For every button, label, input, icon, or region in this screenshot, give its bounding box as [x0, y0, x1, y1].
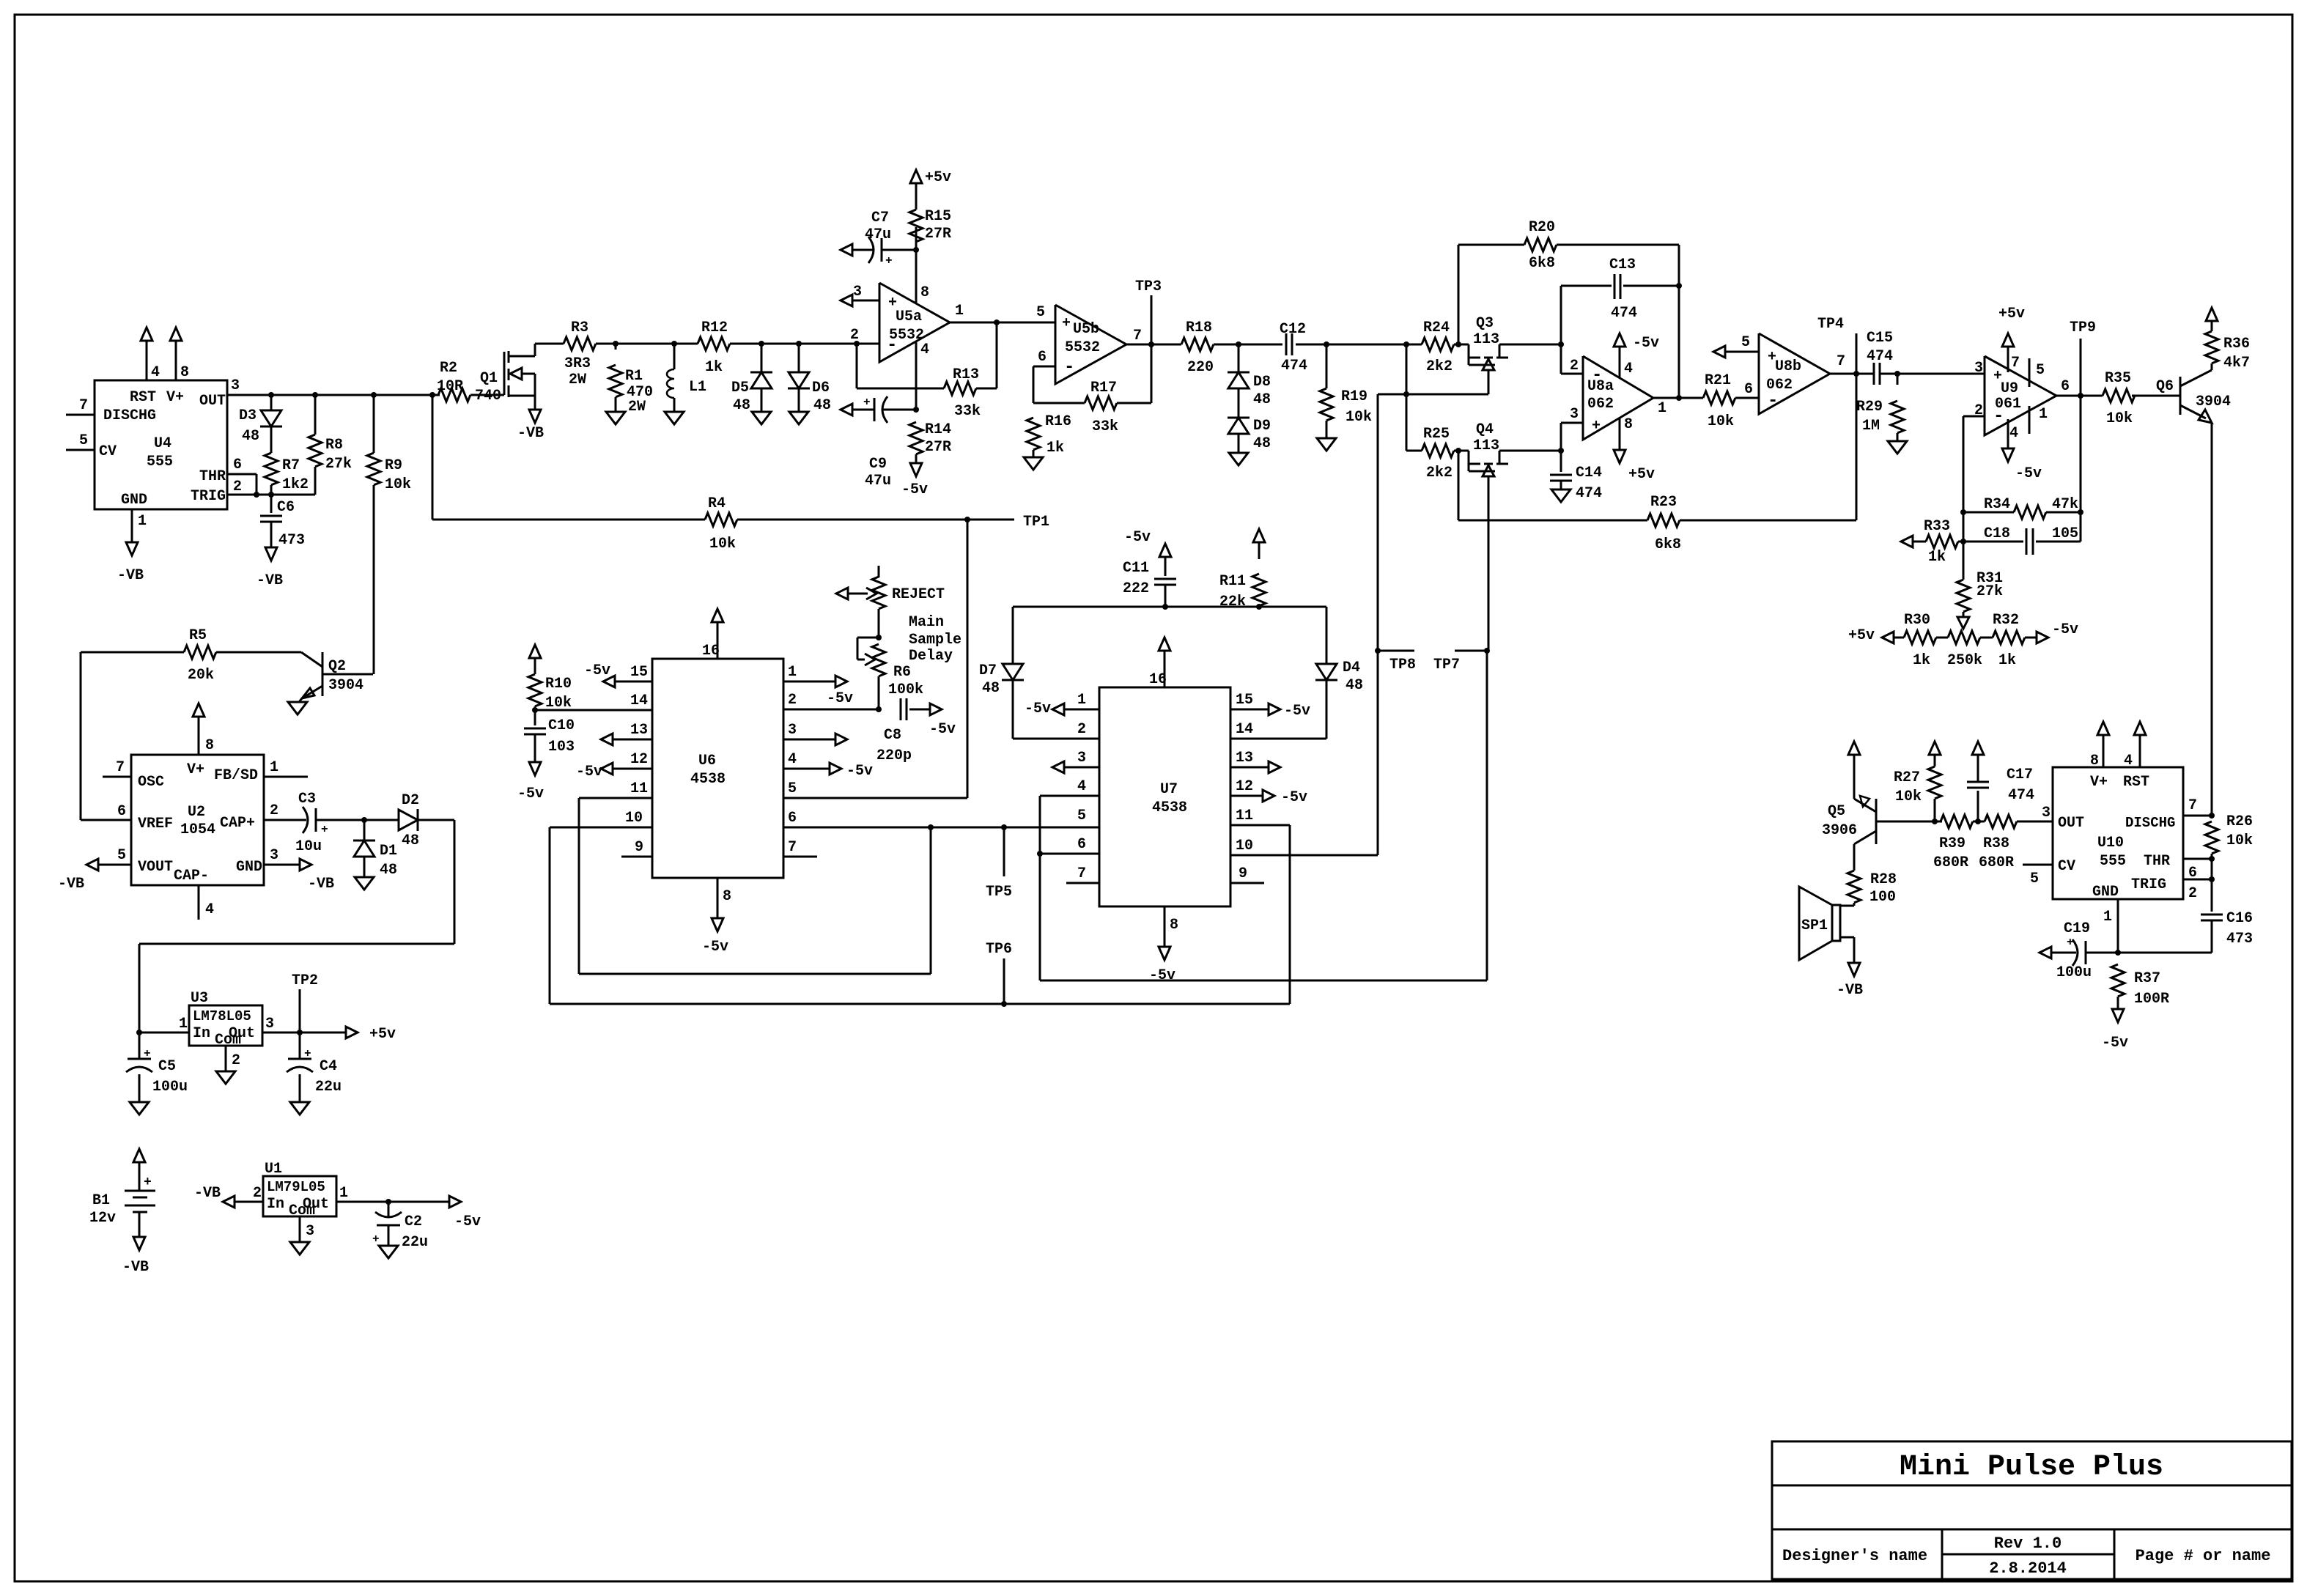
svg-text:4538: 4538: [690, 771, 726, 788]
wire D2 to U3 input: [139, 820, 454, 1032]
U7 pin 13 stub: [1230, 750, 1280, 773]
capacitor C8 220p: [876, 698, 912, 764]
svg-text:100R: 100R: [2134, 991, 2169, 1008]
svg-text:3904: 3904: [328, 677, 363, 694]
R1 ground: [606, 397, 625, 424]
svg-text:D3: D3: [239, 407, 256, 424]
svg-text:3: 3: [1570, 406, 1579, 423]
resistor R36 4k7: [2205, 331, 2250, 372]
svg-text:100k: 100k: [888, 681, 923, 698]
svg-text:1: 1: [1658, 400, 1666, 417]
wire U8b output: [1830, 353, 1859, 377]
svg-text:R28: R28: [1870, 871, 1897, 888]
U4 pin 7 DISCHG stub: [66, 397, 95, 415]
svg-text:-VB: -VB: [1837, 982, 1863, 999]
svg-text:R25: R25: [1423, 426, 1450, 443]
svg-text:R23: R23: [1650, 494, 1677, 511]
svg-text:11: 11: [1236, 808, 1253, 824]
svg-text:4: 4: [1077, 778, 1086, 795]
wire U7 pin4 bus: [1040, 796, 1487, 980]
svg-text:2: 2: [270, 802, 278, 819]
U9 pin 7 supply: [1998, 306, 2025, 372]
U7 pin 4 wire: [1040, 778, 1099, 796]
svg-text:Designer's name: Designer's name: [1782, 1547, 1927, 1565]
R37 -5v arrow: [2102, 997, 2128, 1052]
svg-text:474: 474: [1576, 485, 1602, 502]
svg-text:R14: R14: [925, 421, 951, 438]
svg-text:2: 2: [1974, 402, 1983, 419]
svg-text:R3: R3: [571, 319, 588, 336]
svg-text:OUT: OUT: [2058, 815, 2084, 832]
U10 pin 7 DISCHG stub: [2183, 797, 2215, 819]
svg-text:2: 2: [1077, 721, 1086, 738]
svg-text:5: 5: [788, 780, 797, 797]
diode D3: [239, 395, 282, 445]
svg-text:33k: 33k: [954, 403, 981, 420]
svg-text:R26: R26: [2226, 813, 2253, 830]
svg-text:U5a: U5a: [896, 309, 922, 325]
svg-text:10k: 10k: [385, 476, 411, 493]
pot line +5v side: [1848, 627, 1904, 644]
title text Mini Pulse Plus: [1900, 1451, 2163, 1484]
svg-text:8: 8: [180, 364, 189, 381]
svg-text:3: 3: [853, 284, 862, 300]
svg-text:D1: D1: [380, 843, 397, 860]
U7 pin 7 stub: [1066, 865, 1099, 883]
svg-text:D5: D5: [731, 380, 749, 396]
svg-text:100u: 100u: [152, 1079, 188, 1096]
svg-text:LM78L05: LM78L05: [193, 1008, 251, 1024]
svg-text:-5v: -5v: [901, 481, 928, 498]
svg-text:+5v: +5v: [1628, 466, 1655, 483]
svg-text:D2: D2: [402, 792, 419, 809]
svg-text:U10: U10: [2097, 835, 2124, 851]
svg-text:062: 062: [1587, 396, 1614, 413]
svg-text:Q4: Q4: [1476, 421, 1494, 438]
wire R7 to TRIG node: [268, 485, 274, 498]
svg-text:FB/SD: FB/SD: [214, 767, 258, 784]
resistor R37 100R: [2111, 964, 2169, 1008]
svg-text:D4: D4: [1343, 660, 1360, 676]
svg-text:680R: 680R: [1933, 854, 1968, 871]
svg-text:R29: R29: [1856, 399, 1883, 415]
capacitor C12 474: [1280, 321, 1307, 374]
svg-text:R11: R11: [1219, 573, 1246, 590]
svg-text:+: +: [1592, 418, 1601, 435]
svg-text:+: +: [885, 254, 893, 267]
U7 pin 15 stub: [1230, 692, 1310, 720]
U10 pin 6 THR stub: [2183, 856, 2215, 882]
svg-text:5: 5: [2036, 362, 2045, 379]
svg-text:4: 4: [788, 751, 797, 768]
wire TP1 to U6 pin5 line: [783, 520, 967, 798]
svg-text:R4: R4: [708, 495, 726, 512]
wire pin11 bus riser: [930, 827, 932, 974]
resistor R32 1k: [1993, 612, 2025, 669]
svg-text:555: 555: [147, 454, 173, 470]
resistor R34 47k: [1963, 496, 2083, 519]
title block frame: [1772, 1441, 2292, 1579]
resistor R2 10R: [437, 360, 470, 402]
resistor R5 20k: [81, 627, 216, 684]
svg-text:Sample: Sample: [909, 632, 961, 649]
svg-text:3: 3: [2042, 805, 2051, 821]
wire U5a feedback: [857, 344, 944, 388]
C14 ground: [1551, 481, 1570, 502]
svg-text:R20: R20: [1529, 219, 1555, 236]
svg-text:5: 5: [1741, 334, 1750, 351]
R14 -5v arrow: [901, 454, 928, 498]
svg-text:2: 2: [233, 479, 242, 495]
test point TP3: [1135, 278, 1162, 347]
svg-text:R1: R1: [625, 368, 643, 385]
C8 -5v arrow: [909, 703, 956, 738]
svg-text:6: 6: [1038, 349, 1047, 366]
svg-text:6: 6: [1744, 381, 1753, 398]
svg-text:1: 1: [138, 513, 147, 530]
svg-text:48: 48: [380, 862, 397, 879]
svg-text:Com: Com: [215, 1032, 241, 1049]
capacitor C13 474: [1561, 256, 1682, 322]
Q5 emitter +5v arrow: [1848, 742, 1860, 799]
test point TP1 label: [967, 514, 1049, 531]
svg-text:3: 3: [1974, 360, 1983, 377]
resistor R14 27R: [909, 421, 951, 456]
U8b pin 5 arrow: [1713, 334, 1759, 358]
title page cell: [2136, 1547, 2271, 1565]
svg-text:R36: R36: [2223, 336, 2250, 352]
C5 ground: [130, 1074, 149, 1115]
svg-text:C5: C5: [158, 1058, 176, 1075]
wire R13 to output: [976, 319, 1000, 388]
svg-text:113: 113: [1473, 437, 1499, 454]
svg-text:10k: 10k: [709, 536, 736, 553]
pot REJECT: [836, 566, 945, 609]
svg-text:-5v: -5v: [1025, 701, 1051, 717]
wire R8 to TRIG node: [271, 467, 315, 495]
IC U2 1054 body: [131, 755, 264, 885]
svg-text:48: 48: [402, 832, 419, 849]
svg-text:R18: R18: [1186, 319, 1212, 336]
svg-text:1k: 1k: [705, 359, 723, 376]
svg-text:RST: RST: [2123, 774, 2149, 791]
U10 pin 3 OUT label: [2042, 805, 2051, 821]
svg-text:+5v: +5v: [1998, 306, 2025, 322]
svg-text:CV: CV: [2058, 858, 2075, 875]
C2 ground: [379, 1225, 398, 1258]
svg-text:C4: C4: [320, 1058, 337, 1075]
svg-text:TP5: TP5: [986, 884, 1012, 901]
resistor R30 1k: [1904, 612, 1936, 669]
wire R21 to U8b pin6: [1735, 381, 1759, 398]
svg-text:U3: U3: [191, 990, 208, 1007]
svg-text:-5v: -5v: [2102, 1035, 2128, 1052]
battery B1 12v: [89, 1149, 155, 1227]
svg-text:-5v: -5v: [1149, 967, 1175, 984]
svg-text:U8a: U8a: [1587, 378, 1614, 395]
resistor R38 680R: [1973, 815, 2053, 871]
svg-text:R5: R5: [189, 627, 207, 644]
svg-text:LM79L05: LM79L05: [267, 1179, 325, 1195]
pot 250k: [1947, 631, 1982, 669]
svg-text:R13: R13: [953, 366, 979, 383]
U6 pin 15 stub: [584, 662, 652, 687]
svg-text:TP9: TP9: [2070, 319, 2096, 336]
resistor R13 33k: [944, 366, 981, 420]
svg-text:103: 103: [548, 739, 575, 755]
wire U5a output: [950, 303, 1055, 322]
svg-text:-5v: -5v: [1124, 529, 1151, 546]
svg-text:TP4: TP4: [1817, 316, 1844, 333]
wire R23 feedback: [1458, 374, 1856, 553]
L1 ground: [665, 398, 684, 424]
svg-text:14: 14: [1236, 721, 1253, 738]
resistor R28 100: [1848, 871, 1897, 906]
U6 pin 1 stub: [783, 664, 853, 707]
IC U3 LM78L05 body: [189, 990, 262, 1049]
svg-text:TP8: TP8: [1389, 657, 1416, 673]
svg-text:OSC: OSC: [138, 774, 164, 791]
U10 pin 5 CV stub: [2023, 865, 2053, 887]
svg-text:R16: R16: [1045, 413, 1071, 430]
svg-text:2W: 2W: [628, 399, 646, 415]
resistor R1 470 2W: [609, 344, 653, 415]
wire R35 to Q6: [2135, 395, 2180, 397]
svg-text:15: 15: [630, 664, 648, 681]
svg-text:V+: V+: [2090, 774, 2108, 791]
capacitor C5 100u: [126, 1032, 188, 1096]
wire 555 OUT line: [227, 392, 440, 398]
capacitor C15 474: [1856, 330, 1900, 385]
svg-text:222: 222: [1123, 580, 1149, 597]
wire R18 to C12: [1214, 341, 1282, 347]
svg-text:-5v: -5v: [702, 939, 728, 956]
svg-text:Main: Main: [909, 614, 944, 631]
SP1 -VB arrow: [1837, 937, 1863, 999]
svg-text:U8b: U8b: [1775, 358, 1801, 375]
svg-text:1: 1: [270, 759, 278, 776]
resistor R21 10k: [1703, 372, 1735, 430]
U10 pin 1 GND lead: [2103, 899, 2118, 953]
svg-text:C9: C9: [869, 456, 887, 473]
U4 pin 8 V+ power arrow: [170, 328, 189, 381]
U2 pin 6 label: [117, 803, 126, 820]
op-amp U9 061: [1985, 356, 2056, 435]
svg-text:R39: R39: [1939, 835, 1965, 852]
wire R12 to U5a pin2: [730, 327, 879, 347]
svg-text:48: 48: [1253, 435, 1271, 452]
svg-text:REJECT: REJECT: [892, 586, 945, 603]
svg-text:4538: 4538: [1152, 799, 1187, 816]
wire C15 to U9: [1897, 360, 1985, 377]
diode D8: [1228, 344, 1271, 408]
svg-text:3: 3: [231, 377, 240, 394]
svg-text:-5v: -5v: [576, 764, 602, 780]
svg-text:4: 4: [920, 341, 929, 358]
U5a pin 3 input arrow: [841, 284, 879, 306]
svg-text:-5v: -5v: [1284, 703, 1310, 720]
svg-text:V+: V+: [187, 761, 204, 778]
svg-text:R24: R24: [1423, 319, 1450, 336]
R19 ground: [1317, 421, 1336, 451]
svg-text:1: 1: [2039, 406, 2048, 423]
svg-text:3: 3: [265, 1016, 274, 1032]
svg-text:-5v: -5v: [2015, 465, 2042, 482]
svg-text:1: 1: [339, 1185, 348, 1202]
svg-text:1054: 1054: [180, 821, 215, 838]
svg-text:-5v: -5v: [2052, 621, 2078, 638]
svg-text:1k: 1k: [1913, 652, 1930, 669]
test point TP6: [986, 941, 1012, 1004]
wire Q1 source to -VB: [517, 374, 544, 442]
U8a pin 8 supply arrow: [1614, 416, 1655, 483]
svg-text:-5v: -5v: [929, 721, 956, 738]
resistor R24 2k2: [1422, 319, 1454, 375]
R29 ground: [1888, 433, 1907, 454]
svg-text:Q5: Q5: [1828, 803, 1845, 820]
wire U8a output: [1653, 395, 1703, 417]
svg-text:C18: C18: [1984, 525, 2010, 542]
svg-text:47u: 47u: [865, 473, 891, 489]
U4 GND -VB arrow: [117, 542, 144, 584]
wire pot to R32: [1980, 637, 1993, 639]
svg-text:5532: 5532: [889, 327, 924, 344]
svg-text:6: 6: [788, 810, 797, 827]
capacitor C9 47u: [841, 396, 919, 489]
wire R5 to U2 VREF: [81, 652, 131, 820]
svg-text:10k: 10k: [1346, 409, 1372, 426]
svg-text:Delay: Delay: [909, 648, 953, 665]
op-amp U8a 062: [1583, 356, 1653, 440]
U6 pin 10 wire: [550, 810, 652, 827]
svg-text:C7: C7: [871, 210, 889, 226]
U1 Com pin 3 ground: [290, 1216, 314, 1255]
svg-text:2: 2: [1570, 358, 1579, 374]
test point TP9: [2070, 319, 2096, 396]
resistor R16 1k: [1027, 413, 1071, 457]
capacitor C19 100u: [2040, 920, 2121, 981]
resistor R39 680R: [1933, 815, 1973, 871]
transistor Q4 113: [1454, 421, 1508, 651]
svg-text:473: 473: [2226, 931, 2253, 947]
U4 pin 1 GND lead: [132, 509, 147, 542]
wire Q6 col to C16: [2211, 854, 2213, 912]
svg-text:9: 9: [635, 839, 643, 856]
svg-text:3: 3: [306, 1223, 314, 1240]
test point TP7: [1433, 648, 1490, 673]
svg-text:+5v: +5v: [925, 169, 951, 186]
U2 pin 3 GND arrow: [264, 847, 334, 893]
svg-text:5: 5: [1077, 808, 1086, 824]
U6 pin 2 wire: [783, 692, 879, 709]
title date cell: [1989, 1559, 2067, 1578]
svg-text:27R: 27R: [925, 439, 951, 456]
svg-text:7: 7: [1837, 353, 1845, 370]
wire Q6 emitter down: [2211, 423, 2213, 816]
svg-text:Com: Com: [289, 1202, 315, 1219]
resistor R26 10k: [2205, 813, 2253, 854]
svg-text:5: 5: [2030, 871, 2039, 887]
R15 +5v arrow: [910, 169, 951, 210]
U7 pin 11 wire: [1230, 808, 1290, 825]
op-amp U5a 5532: [879, 283, 950, 362]
svg-text:DISCHG: DISCHG: [2125, 815, 2175, 831]
U7 pin 10 wire: [1230, 838, 1378, 855]
svg-text:Q6: Q6: [2156, 378, 2174, 395]
capacitor C18 105: [1963, 525, 2081, 555]
svg-text:10R: 10R: [437, 378, 463, 395]
IC U6 4538 body: [652, 659, 783, 878]
svg-text:V+: V+: [166, 389, 184, 406]
D9 ground: [1229, 434, 1248, 465]
op-amp U5b 5532: [1055, 305, 1126, 384]
svg-text:2: 2: [850, 327, 859, 344]
wire R9 to Q2 collector: [373, 485, 375, 674]
B1 -VB arrow: [122, 1212, 149, 1276]
wire TP9 column: [2080, 396, 2082, 542]
wire R31 to pot wiper: [1957, 612, 1969, 629]
diode D5: [731, 344, 772, 414]
svg-text:-5v: -5v: [1281, 789, 1307, 806]
U7 pin 2 label: [1077, 721, 1086, 738]
wire R5 to Q2 base: [216, 652, 322, 667]
svg-text:3: 3: [788, 722, 797, 739]
capacitor C10 103: [524, 710, 575, 755]
svg-text:062: 062: [1766, 377, 1793, 394]
resistor R20 6k8: [1458, 219, 1679, 272]
Q3 source net: [1378, 344, 1488, 451]
svg-text:680R: 680R: [1979, 854, 2014, 871]
svg-text:48: 48: [813, 397, 831, 414]
svg-text:5: 5: [117, 847, 126, 864]
svg-text:10k: 10k: [545, 695, 572, 712]
R16 ground: [1024, 450, 1043, 470]
wire U1 Out line: [336, 1185, 449, 1205]
diode D2 48: [364, 792, 419, 849]
U10 pin 8 arrow: [2090, 722, 2109, 769]
resistor R18 220: [1181, 319, 1214, 376]
resistor R11 22k: [1219, 529, 1266, 610]
capacitor C7 47u: [841, 210, 919, 267]
svg-text:22k: 22k: [1219, 594, 1246, 610]
svg-text:R38: R38: [1983, 835, 2009, 852]
svg-text:-5v: -5v: [827, 690, 853, 707]
svg-text:27k: 27k: [1976, 583, 2003, 600]
svg-text:Rev 1.0: Rev 1.0: [1994, 1534, 2061, 1553]
wire TP8 column to U7 pin10: [1377, 651, 1379, 855]
transistor Q2 3904: [299, 652, 373, 702]
svg-text:474: 474: [1611, 305, 1637, 322]
svg-text:CAP+: CAP+: [220, 815, 255, 832]
svg-text:C12: C12: [1280, 321, 1306, 338]
svg-text:1k: 1k: [1047, 440, 1064, 457]
svg-text:C19: C19: [2064, 920, 2090, 937]
IC U1 LM79L05 body: [263, 1161, 336, 1219]
IC U10 555 body: [2053, 767, 2183, 901]
svg-text:16: 16: [1149, 671, 1167, 688]
svg-text:OUT: OUT: [199, 393, 226, 410]
svg-text:D6: D6: [812, 380, 830, 396]
U7 pin 1 stub: [1025, 692, 1099, 717]
svg-text:+: +: [144, 1175, 152, 1190]
svg-text:In: In: [267, 1196, 284, 1213]
svg-text:-VB: -VB: [122, 1259, 149, 1276]
svg-text:48: 48: [982, 680, 1000, 697]
U10 pin 2 TRIG stub: [2183, 876, 2215, 902]
svg-text:+: +: [144, 1047, 151, 1060]
svg-text:100: 100: [1869, 889, 1896, 906]
svg-text:250k: 250k: [1947, 652, 1982, 669]
